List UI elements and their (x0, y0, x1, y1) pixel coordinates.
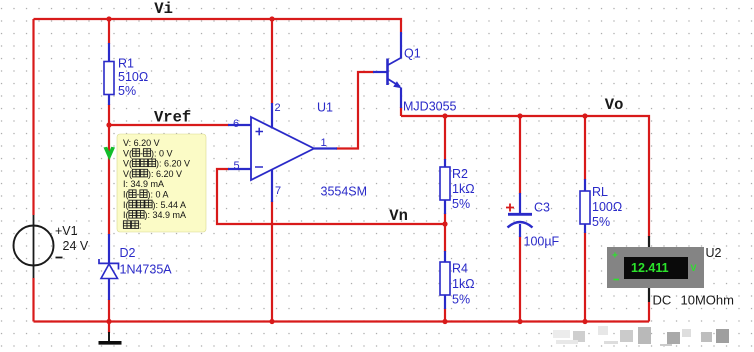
resistor R4 1k ohm (440, 251, 450, 309)
op-amp U1 3554SM (251, 117, 314, 180)
svg-text:Vref: Vref (154, 109, 191, 127)
svg-text:100Ω: 100Ω (592, 200, 622, 214)
zener diode D2 1N4735A (99, 234, 119, 300)
svg-text:D2: D2 (120, 246, 136, 260)
wire: bottom ground rail (34, 320, 650, 322)
svg-text:5%: 5% (452, 197, 470, 211)
svg-text:): 0 V: ): 0 V (151, 148, 173, 158)
svg-text:I(: I( (123, 190, 129, 200)
op-amp pin 6 stub (non-inverting input) (228, 124, 251, 126)
junction node at (520,321.5) (517, 319, 522, 324)
svg-text:6: 6 (233, 118, 239, 130)
watermark (decorative, pixelated) (553, 326, 729, 346)
wire: RL bottom to ground rail (584, 232, 586, 322)
svg-text::: : (139, 220, 142, 230)
svg-text:): 6.20 V: ): 6.20 V (156, 159, 190, 169)
resistor R2 1k ohm (440, 159, 450, 214)
junction node at (585,116) (582, 113, 587, 118)
svg-text:10MOhm: 10MOhm (681, 293, 734, 308)
wire: left rail from Vi to V1 (32, 19, 34, 215)
svg-text:5%: 5% (118, 84, 136, 98)
wire: Vref node down to D2 (108, 125, 110, 235)
svg-text:Q1: Q1 (404, 47, 421, 61)
junction node at (109,125) (106, 122, 111, 127)
svg-text:V(: V( (123, 159, 132, 169)
svg-text:): 5.44 A: ): 5.44 A (153, 200, 187, 210)
junction node at (272,321.5) (269, 319, 274, 324)
svg-text:1N4735A: 1N4735A (120, 263, 173, 277)
svg-text:V: 6.20 V: V: 6.20 V (123, 138, 160, 148)
resistor RL 100 ohm (580, 179, 590, 233)
svg-text:100µF: 100µF (524, 235, 560, 249)
svg-text:R1: R1 (118, 57, 134, 71)
op-amp pin 7 stub (V-) (271, 170, 273, 202)
wire: Q1 emitter to Vo rail (400, 107, 402, 116)
wire: C3 bottom to ground rail (519, 236, 521, 322)
wire: R1 bottom to Vref node (108, 104, 110, 126)
junction node at (109,321.5) (106, 319, 111, 324)
junction node at (585,321.5) (582, 319, 587, 324)
svg-text:): 6.20 V: ): 6.20 V (148, 169, 182, 179)
capacitor C3 100uF (polarized) (508, 193, 533, 237)
svg-text:R4: R4 (452, 262, 468, 276)
svg-text:-: - (137, 190, 140, 200)
svg-text:1kΩ: 1kΩ (452, 182, 475, 196)
junction node at (445,224) (442, 221, 447, 226)
svg-text:+: + (612, 251, 618, 262)
svg-text:V(: V( (123, 148, 132, 158)
svg-text:R2: R2 (452, 167, 468, 181)
svg-text:V(: V( (123, 169, 132, 179)
svg-text:3554SM: 3554SM (321, 185, 368, 199)
svg-text:I: 34.9 mA: I: 34.9 mA (123, 179, 164, 189)
svg-text:RL: RL (592, 185, 608, 199)
junction node at (520,116) (517, 113, 522, 118)
svg-text:Vn: Vn (389, 207, 408, 225)
svg-text:12.411: 12.411 (631, 261, 669, 275)
probe tooltip box with measurements (117, 134, 206, 232)
wire: D2 bottom to ground rail (108, 299, 110, 322)
wire: Vref net from R1/D2 to op-amp pin 6 (108, 124, 229, 126)
wire: R4 top to Vn node (444, 223, 446, 252)
resistor R1 510 ohm (104, 43, 114, 105)
svg-text:510Ω: 510Ω (118, 70, 148, 84)
svg-text:MJD3055: MJD3055 (403, 100, 457, 114)
svg-text:): 0 A: ): 0 A (148, 190, 169, 200)
op-amp pin 2 stub (V+) (271, 103, 273, 129)
svg-text:V: V (691, 263, 697, 273)
multimeter U2 (607, 236, 704, 302)
C3 polarity plus sign (506, 204, 514, 212)
svg-text:I(: I( (123, 210, 129, 220)
wire: R2 bottom to Vn node (444, 213, 446, 225)
svg-text:5%: 5% (592, 215, 610, 229)
wire: R4 bottom to ground rail (444, 308, 446, 322)
svg-text:Vo: Vo (605, 96, 624, 114)
wire: feedback from pin 5 to Vn node (217, 169, 444, 224)
wire: R2 top to Vo rail (444, 116, 446, 160)
wire: U2 multimeter bottom to ground rail (648, 302, 650, 322)
svg-text:U1: U1 (317, 101, 333, 115)
svg-text:+V1: +V1 (55, 224, 78, 238)
voltage source V1 24V (14, 215, 54, 278)
svg-text:U2: U2 (706, 246, 722, 260)
svg-text:DC: DC (653, 293, 672, 308)
svg-text:): 34.9 mA: ): 34.9 mA (145, 210, 187, 220)
wire: op-amp pin 7 to ground rail (271, 201, 273, 322)
svg-text:7: 7 (275, 185, 281, 197)
op-amp pin 1 stub (output) (314, 147, 337, 149)
wire: R1 top connection to Vi rail (108, 19, 110, 44)
junction node at (109,19) (106, 16, 111, 21)
svg-text:1: 1 (321, 137, 327, 149)
wire: op-amp pin 2 to Vi rail (271, 19, 273, 104)
svg-text:-: - (140, 148, 143, 158)
ground symbol (99, 322, 122, 343)
svg-text:2: 2 (275, 102, 281, 114)
svg-text:I(: I( (123, 200, 129, 210)
junction node at (445,116) (442, 113, 447, 118)
svg-text:Vi: Vi (154, 0, 173, 18)
wire: left rail from V1 to bottom (32, 278, 34, 322)
wire: Vo rail (401, 116, 649, 237)
svg-text:C3: C3 (534, 201, 550, 215)
measurement probe arrow (green) (104, 147, 116, 161)
svg-text:5: 5 (234, 160, 240, 172)
svg-text:1kΩ: 1kΩ (452, 277, 475, 291)
junction node at (445,321.5) (442, 319, 447, 324)
transistor Q1 MJD3055 (NPN) (373, 32, 402, 108)
op-amp pin 5 stub (inverting input) (228, 168, 251, 170)
wire: op-amp output to Q1 base (336, 72, 374, 149)
wire: top rail Vi net (34, 19, 402, 32)
wire: C3 top to Vo rail (519, 116, 521, 194)
svg-text:24 V: 24 V (63, 239, 89, 253)
junction node at (272,19) (269, 16, 274, 21)
V1 minus sign (56, 257, 63, 259)
wire: RL top to Vo rail (584, 116, 586, 180)
svg-text:5%: 5% (452, 293, 470, 307)
